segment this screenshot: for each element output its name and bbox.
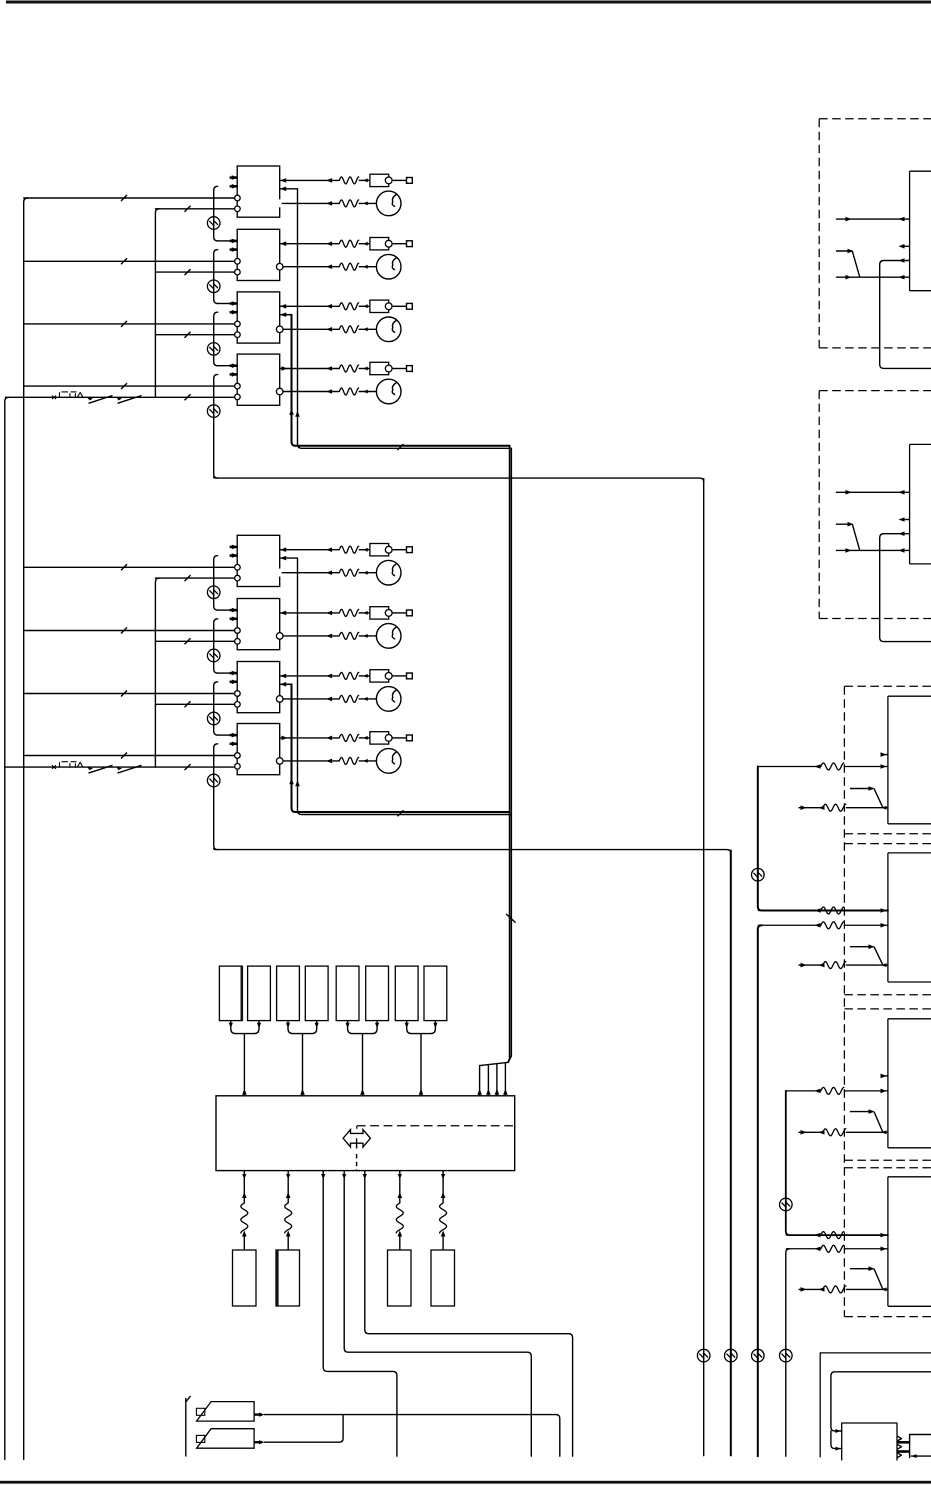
UA4 pin circle 1 [235, 383, 241, 389]
connector CN6 [366, 966, 389, 1021]
connector CN5 [336, 966, 359, 1021]
T2 switch arrow [836, 523, 852, 525]
connector stem 2 [302, 1034, 304, 1096]
twist connector A2 [207, 280, 220, 293]
dashed unit box T2 [818, 391, 820, 619]
vertical harness wire 4 upper [786, 1091, 888, 1235]
connector stem 1 [243, 1034, 245, 1096]
sensor wire with coil [287, 1180, 289, 1204]
wire block1 right tap B [280, 557, 298, 559]
T2 signal wire 2 [836, 549, 910, 551]
fuse holder [370, 670, 389, 682]
connector CN8 [424, 966, 447, 1021]
fuse squiggle [339, 240, 358, 247]
UA1 pin circle 2 [235, 206, 241, 212]
T1 switch blade [852, 251, 859, 277]
sensor wire with coil [243, 1180, 245, 1204]
UB4 left input arrow 2 [230, 743, 238, 746]
dashed box edge 8 [844, 1316, 931, 1318]
bidirectional bus symbol [343, 1130, 370, 1147]
twist connector V2 [725, 1349, 738, 1362]
switch blade 1 B [89, 765, 113, 773]
lamp wire [283, 391, 340, 393]
vertical harness wire 3 lower [758, 925, 762, 1456]
feedback vertical thin B [298, 558, 512, 814]
box C coil wire [786, 1090, 821, 1092]
lamp wire [283, 328, 340, 330]
feedback vertical thick B [292, 684, 510, 812]
module box B [887, 853, 889, 982]
twist connector B3 [207, 712, 220, 725]
chain wire A3 [214, 312, 218, 366]
dashed column left edge [843, 686, 845, 1316]
wire pin2 feed A3 [155, 334, 234, 336]
fuse holder [370, 300, 389, 312]
chain output wire A [214, 477, 704, 482]
control block UA4 [237, 354, 280, 405]
lamp squiggle [339, 569, 358, 576]
UA4 left input arrow 1 [230, 364, 238, 367]
connector CN7 [395, 966, 418, 1021]
T1 signal wire 2 [836, 276, 910, 278]
T1 side wire [880, 261, 931, 369]
connector pair merge 4 [407, 1021, 421, 1034]
bottom module pins [897, 1441, 910, 1444]
twist connector A4 [207, 405, 220, 418]
wire pin2 feed A1 [155, 208, 234, 210]
lamp [376, 191, 401, 216]
left bus vertical 2 [5, 397, 9, 1459]
lamp wire [283, 635, 340, 637]
switch blade [874, 947, 883, 965]
lamp squiggle [339, 326, 358, 333]
dashed box edge 5 [844, 1008, 931, 1010]
block lamp pin circle [276, 263, 283, 270]
dashed box edge 2 [844, 833, 931, 835]
UA4 left input arrow 2 [230, 373, 238, 376]
control block UA1 [237, 166, 280, 217]
switch blade 2 A [118, 396, 142, 404]
switch blade [874, 1269, 883, 1290]
UA4 pin circle 2 [235, 394, 241, 400]
block lamp pin circle [276, 326, 283, 333]
control block UA3 [237, 292, 280, 343]
twist connector V3a [752, 868, 765, 881]
bottom unit outer corner [820, 1353, 931, 1457]
dashed box edge 1 [844, 685, 931, 687]
block lamp pin circle [276, 696, 283, 703]
fuse wire [280, 368, 340, 370]
terminal square [407, 303, 413, 309]
UA2 pin circle 2 [235, 269, 241, 275]
chain wire B4 [214, 744, 218, 850]
bottom module branch 1 [831, 1420, 842, 1431]
terminal square [407, 241, 413, 247]
connector CN4 [305, 966, 328, 1021]
UA1 pin circle 1 [235, 195, 241, 201]
T2 side wire [880, 534, 931, 642]
return wire [799, 807, 823, 809]
harness fan wire 3 [496, 1064, 498, 1096]
T2 input stubs [904, 519, 910, 521]
UB4 pin circle 2 [235, 764, 241, 770]
fuse holder [370, 174, 389, 186]
control block UB4 [237, 724, 280, 775]
lamp squiggle [339, 200, 358, 207]
wire pin1 feed A3 [24, 323, 235, 325]
page link bracket [185, 1398, 187, 1457]
module box A [887, 696, 889, 824]
interface output pin [243, 1171, 245, 1180]
interface output pin [442, 1171, 444, 1180]
module box D [887, 1177, 889, 1307]
connector pair merge 3 [348, 1021, 363, 1034]
bottom right box [910, 1435, 931, 1458]
T1 switch arrow [836, 250, 852, 252]
wire pin1 feed B3 [24, 693, 235, 695]
fuse squiggle [339, 672, 358, 679]
box A input stub [882, 754, 888, 756]
control block UB1 [237, 535, 280, 586]
UB3 left input arrow 2 [230, 681, 238, 684]
fuse wire [280, 737, 340, 739]
bottom unit inner corner [831, 1372, 931, 1420]
UB1 pin circle 2 [235, 575, 241, 581]
UB2 pin circle 2 [235, 639, 241, 645]
top border bar [6, 1, 931, 4]
page link arrow 1 [254, 1413, 262, 1415]
lamp wire [283, 266, 340, 268]
connector CN3 [277, 966, 300, 1021]
left bus vertical 1 [24, 198, 28, 1459]
wire pin1 feed A2 [24, 260, 235, 262]
interface output pin [364, 1171, 366, 1180]
wire pin1 feed A1 [24, 197, 235, 199]
control block UB2 [237, 599, 280, 650]
chain wire A4 [214, 374, 218, 478]
wire pin2 feed B3 [155, 703, 234, 705]
fuse squiggle [339, 303, 358, 310]
UB4 pin circle 1 [235, 753, 241, 759]
UA2 left input arrow 1 [230, 240, 238, 243]
interface unit box [216, 1096, 515, 1171]
wire block3 right tap B [280, 683, 292, 685]
wire pin2 feed B2 [155, 640, 234, 642]
connector stem 4 [420, 1034, 422, 1096]
lamp [376, 687, 401, 712]
block lamp pin circle [276, 758, 283, 765]
sensor [431, 1250, 455, 1306]
chain wire B1 [214, 556, 218, 611]
wire to lower-left 3 [365, 1180, 573, 1457]
twist connector V1 [697, 1349, 710, 1362]
fuse holder [370, 607, 389, 619]
UB1 left input arrow 2 [230, 554, 238, 557]
terminal square [407, 673, 413, 679]
interface output pin [322, 1171, 324, 1180]
return wire [799, 1131, 823, 1133]
module box C [887, 1019, 889, 1148]
connector CN1 thick edge [241, 966, 244, 1021]
block edge gap for lamp wire [279, 569, 281, 577]
return wire [799, 1288, 823, 1290]
harness fan wire 2 [487, 1065, 489, 1096]
fuse wire [280, 612, 340, 614]
fuse squiggle [339, 177, 358, 184]
UB2 left input arrow 2 [230, 618, 238, 621]
twist connector V4a [780, 1198, 793, 1211]
UB3 pin circle 2 [235, 702, 241, 708]
UA1 left input arrow 1 [230, 176, 238, 179]
interface output pin [399, 1171, 401, 1180]
wire block1 right tap A [280, 188, 298, 190]
fuse squiggle [339, 609, 358, 616]
switch arrow [850, 1111, 874, 1113]
switch arrow [850, 788, 874, 790]
fuse wire [280, 675, 340, 677]
bottom module box [842, 1423, 897, 1460]
feedback vertical thin A [298, 189, 512, 449]
wire pin2 feed B1 [155, 577, 234, 579]
UB1 pin circle 1 [235, 565, 241, 571]
UB1 left input arrow 1 [230, 546, 238, 549]
sensor [276, 1250, 300, 1306]
chain output wire B [214, 849, 731, 854]
UB2 pin circle 1 [235, 628, 241, 634]
chain wire A1 [214, 186, 218, 241]
twist connector A1 [207, 217, 220, 230]
fuse squiggle [339, 546, 358, 553]
connector pair merge 1 [231, 1021, 245, 1034]
UA3 pin circle 2 [235, 332, 241, 338]
wire pin1 feed A4 [24, 385, 235, 387]
connector stem 3 [362, 1034, 364, 1096]
switch blade [874, 789, 883, 808]
harness fan wire 4 [504, 1063, 506, 1096]
page link arrow 2 [254, 1441, 262, 1443]
UB3 left input arrow 1 [230, 672, 238, 675]
UA3 left input arrow 2 [230, 311, 238, 314]
page link flag 2 [197, 1429, 255, 1449]
sensor 2 thick edge [276, 1250, 279, 1306]
lamp wire [282, 572, 340, 574]
UB3 pin circle 1 [235, 691, 241, 697]
switch arrow [850, 1268, 874, 1270]
twist connector B2 [207, 649, 220, 662]
UB2 left input arrow 1 [230, 609, 238, 612]
feedback slash A [398, 444, 404, 450]
switch wire A [5, 396, 235, 398]
box A coil wire [758, 766, 821, 768]
lamp [376, 254, 401, 279]
twist connector B1 [207, 586, 220, 599]
twist connector A3 [207, 343, 220, 356]
sensor [233, 1250, 257, 1306]
box C input stub [882, 1075, 888, 1077]
UA1 left input arrow 2 [230, 185, 238, 188]
module box inside T2 [909, 444, 911, 564]
lamp squiggle [339, 632, 358, 639]
vertical harness wire 2 [730, 850, 732, 1457]
chain wire B3 [214, 682, 218, 735]
lamp squiggle [339, 695, 358, 702]
lamp squiggle [339, 388, 358, 395]
page link wire 1 [265, 1415, 560, 1457]
harness fan wire 1 [479, 1066, 481, 1096]
box B coil wire 1 [758, 910, 821, 912]
switch blade 2 B [118, 765, 142, 773]
twist connector B4 [207, 774, 220, 787]
lamp squiggle [339, 757, 358, 764]
fuse holder [370, 362, 389, 374]
fuse wire [280, 179, 340, 181]
fuse holder [370, 544, 389, 556]
terminal square [407, 610, 413, 616]
dashed box edge 7 [844, 1167, 931, 1169]
module box inside T1 [909, 171, 911, 291]
switch blade 1 A [89, 396, 113, 404]
harness fan header [480, 1062, 509, 1065]
lamp [376, 624, 401, 649]
interface output pin [343, 1171, 345, 1180]
vertical harness wire 4 lower [786, 1249, 790, 1456]
T1 signal wire 1 [836, 218, 910, 220]
wire to lower-left 1 [323, 1180, 397, 1457]
bottom module branch 2 [831, 1431, 842, 1449]
wire pin1 feed B2 [24, 630, 235, 632]
control block UB3 [237, 662, 280, 713]
UA2 pin circle 1 [235, 259, 241, 265]
block edge gap for lamp wire [279, 199, 281, 207]
lamp wire [283, 698, 340, 700]
terminal square [407, 366, 413, 372]
dashed unit box T1 [818, 119, 820, 348]
sensor wire with coil [399, 1180, 401, 1204]
switch arrow [850, 946, 874, 948]
UA2 left input arrow 2 [230, 248, 238, 251]
interface output pin [287, 1171, 289, 1180]
control block UA2 [237, 229, 280, 280]
dashed box edge 4 [844, 994, 931, 996]
chain wire A2 [214, 250, 218, 304]
dashed box edge 3 [844, 843, 931, 845]
lamp [376, 379, 401, 404]
box B coil wire 2 [758, 924, 821, 926]
wire pin1 feed B4 [24, 755, 235, 757]
twist connector V3 [752, 1349, 765, 1362]
feedback vertical thick A [292, 315, 510, 446]
harness tick [506, 914, 515, 923]
T2 signal wire 1 [836, 491, 910, 493]
block lamp pin circle [276, 388, 283, 395]
switch wire B [5, 766, 235, 768]
T2 switch blade [852, 524, 859, 550]
UA3 pin circle 1 [235, 321, 241, 327]
harness vertical pair [508, 446, 509, 1063]
vertical harness wire 3 upper [758, 767, 888, 911]
T1 input stubs [904, 245, 910, 247]
sensor [388, 1250, 412, 1306]
ignition switch A [52, 396, 56, 400]
dashed box edge 6 [844, 1159, 931, 1161]
fuse squiggle [339, 734, 358, 741]
page link flag 1 [197, 1402, 255, 1422]
UA3 left input arrow 1 [230, 302, 238, 305]
sensor wire with coil [442, 1180, 444, 1204]
terminal square [407, 735, 413, 741]
feedback slash B [398, 810, 404, 816]
lamp [376, 317, 401, 342]
pin2 bus vertical B [155, 578, 159, 767]
terminal square [407, 547, 413, 553]
block lamp pin circle [276, 633, 283, 640]
ignition switch B [52, 765, 56, 769]
connector CN1 [219, 966, 242, 1021]
lamp squiggle [339, 263, 358, 270]
wire pin1 feed B1 [24, 566, 235, 568]
wire block3 right tap A [280, 314, 292, 316]
switch blade [874, 1112, 883, 1133]
wire pin2 feed A2 [155, 271, 234, 273]
terminal square [407, 178, 413, 184]
box D coil wire 2 [786, 1248, 821, 1250]
twist connector V4 [780, 1349, 793, 1362]
UB4 left input arrow 1 [230, 734, 238, 737]
fuse wire [280, 305, 340, 307]
fuse holder [370, 732, 389, 744]
chain wire B2 [214, 619, 218, 673]
wire to lower-left 2 [344, 1180, 531, 1457]
fuse holder [370, 238, 389, 250]
lamp wire [282, 202, 340, 204]
lamp [376, 749, 401, 774]
bottom border bar [0, 1481, 931, 1484]
lamp [376, 560, 401, 585]
fuse wire [280, 549, 340, 551]
pin2 bus vertical A [155, 209, 159, 397]
connector CN2 [248, 966, 271, 1021]
bottom right wire [911, 1455, 931, 1457]
fuse wire [280, 243, 340, 245]
return wire [799, 964, 823, 966]
lamp wire [283, 760, 340, 762]
box D coil wire 1 [786, 1234, 821, 1236]
connector pair merge 2 [288, 1021, 303, 1034]
fuse squiggle [339, 365, 358, 372]
internal dashed link [357, 1125, 514, 1127]
page link wire 2 [265, 1415, 344, 1443]
vertical harness wire 1 [703, 478, 705, 1456]
